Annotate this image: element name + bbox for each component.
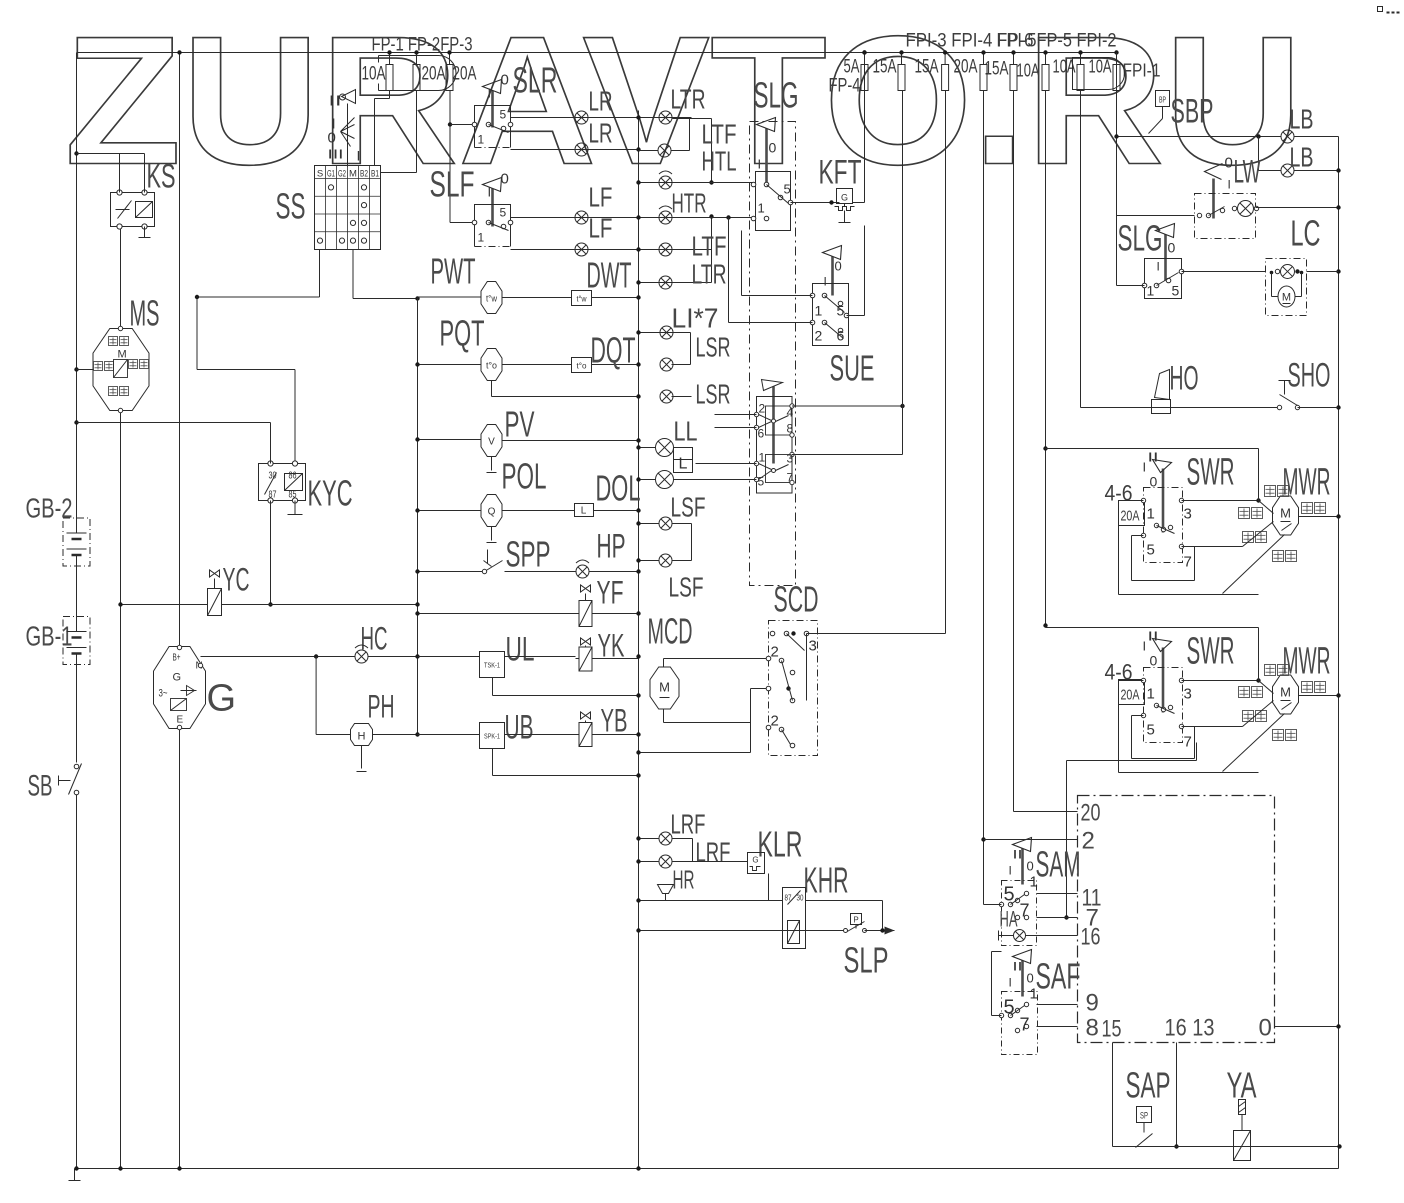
svg-text:SLF: SLF (430, 164, 475, 205)
svg-text:20A: 20A (954, 57, 978, 78)
svg-text:HTR: HTR (672, 188, 707, 219)
svg-text:5: 5 (1147, 542, 1155, 559)
svg-text:5: 5 (1172, 283, 1180, 299)
svg-text:7: 7 (1184, 734, 1192, 751)
svg-text:LW: LW (1234, 154, 1261, 190)
svg-text:Q: Q (488, 507, 496, 518)
svg-text:LB: LB (1290, 104, 1314, 135)
svg-text:1: 1 (1147, 506, 1155, 523)
svg-text:B1: B1 (371, 169, 379, 180)
svg-text:SCD: SCD (774, 579, 819, 620)
svg-text:t°w: t°w (577, 295, 587, 304)
svg-text:KHR: KHR (804, 860, 849, 901)
svg-text:YB: YB (601, 703, 628, 739)
svg-text:5: 5 (500, 108, 507, 122)
svg-text:SHO: SHO (1288, 357, 1331, 395)
svg-text:B2: B2 (360, 169, 368, 180)
svg-text:0: 0 (328, 130, 336, 147)
svg-text:II: II (1013, 848, 1023, 862)
svg-text:2: 2 (1082, 828, 1095, 855)
svg-text:G: G (207, 678, 237, 720)
svg-text:4: 4 (787, 406, 794, 420)
svg-text:II: II (329, 93, 342, 110)
svg-text:SLR: SLR (513, 60, 558, 101)
svg-text:III: III (328, 147, 344, 162)
svg-text:8: 8 (1086, 1015, 1099, 1042)
svg-text:PQT: PQT (440, 313, 485, 354)
svg-text:I: I (1143, 639, 1147, 654)
svg-text:LRF: LRF (671, 809, 706, 840)
svg-text:1: 1 (815, 303, 823, 319)
svg-text:MWR: MWR (1283, 641, 1331, 683)
svg-text:G: G (173, 672, 182, 684)
svg-text:5: 5 (837, 303, 845, 319)
svg-text:BP: BP (1159, 96, 1166, 105)
svg-text:HA: HA (1000, 907, 1018, 932)
svg-text:I: I (1009, 864, 1012, 878)
svg-text:0: 0 (501, 171, 509, 188)
svg-text:V: V (488, 437, 495, 448)
svg-text:5: 5 (500, 206, 507, 220)
svg-text:6: 6 (758, 427, 765, 441)
svg-text:7: 7 (787, 471, 794, 485)
svg-text:20A: 20A (422, 64, 446, 85)
svg-text:SWR: SWR (1187, 452, 1235, 494)
svg-text:L: L (679, 456, 688, 473)
svg-text:I: I (758, 157, 762, 172)
svg-text:8: 8 (787, 422, 794, 436)
svg-text:DQT: DQT (591, 330, 636, 371)
svg-text:M: M (1280, 685, 1291, 700)
svg-text:LSF: LSF (671, 492, 706, 523)
svg-text:I: I (1009, 976, 1012, 990)
svg-text:LTR: LTR (692, 259, 727, 290)
svg-text:2: 2 (771, 644, 779, 661)
svg-text:15A: 15A (915, 57, 939, 78)
svg-text:0: 0 (769, 140, 777, 156)
svg-text:3~: 3~ (159, 688, 168, 700)
svg-text:YC: YC (223, 562, 250, 598)
svg-text:II: II (1013, 960, 1023, 974)
svg-text:II: II (1148, 450, 1159, 465)
svg-text:16 13: 16 13 (1165, 1015, 1215, 1042)
svg-text:0: 0 (1168, 240, 1176, 256)
svg-text:3: 3 (1184, 686, 1192, 703)
svg-text:10A: 10A (1017, 61, 1040, 81)
svg-text:2: 2 (771, 713, 779, 730)
svg-text:LF: LF (589, 182, 613, 213)
svg-text:LR: LR (589, 86, 613, 117)
svg-text:0: 0 (835, 259, 842, 274)
svg-text:0: 0 (1225, 155, 1233, 172)
svg-text:0: 0 (501, 72, 509, 89)
svg-text:DWT: DWT (587, 255, 632, 296)
svg-text:SLP: SLP (844, 940, 889, 981)
svg-text:SS: SS (276, 186, 306, 227)
svg-text:15A: 15A (873, 57, 897, 78)
svg-text:G: G (752, 856, 758, 865)
svg-text:16: 16 (1081, 924, 1101, 951)
svg-text:FPI-1: FPI-1 (1123, 61, 1161, 81)
svg-text:M: M (1280, 506, 1291, 521)
svg-text:M: M (118, 349, 127, 361)
svg-text:LSR: LSR (696, 332, 731, 363)
svg-text:LRF: LRF (696, 837, 731, 868)
svg-text:POL: POL (502, 456, 547, 497)
svg-text:M: M (349, 169, 357, 180)
svg-text:1: 1 (478, 231, 485, 245)
svg-text:0: 0 (1259, 1015, 1272, 1042)
svg-text:2: 2 (759, 402, 766, 416)
svg-text:1: 1 (1147, 283, 1155, 299)
svg-text:LC: LC (1291, 213, 1321, 254)
svg-text:I: I (488, 86, 492, 101)
svg-text:15: 15 (1102, 1016, 1122, 1043)
svg-text:HTL: HTL (702, 146, 737, 177)
svg-text:30: 30 (797, 894, 804, 903)
svg-text:G: G (841, 193, 848, 203)
svg-text:20: 20 (1081, 800, 1101, 827)
svg-text:SLG: SLG (1118, 218, 1163, 259)
svg-text:L: L (581, 506, 587, 517)
svg-text:3: 3 (809, 638, 817, 655)
svg-text:7: 7 (1184, 554, 1192, 571)
svg-text:3: 3 (787, 452, 794, 466)
svg-text:M: M (1282, 292, 1291, 304)
svg-text:UB: UB (505, 709, 534, 747)
svg-text:LSR: LSR (696, 379, 731, 410)
svg-text:PH: PH (368, 689, 395, 725)
svg-text:KS: KS (147, 158, 176, 196)
svg-text:0: 0 (1150, 653, 1158, 669)
svg-text:LF: LF (589, 213, 613, 244)
svg-text:I: I (357, 148, 361, 164)
svg-text:SLG: SLG (754, 75, 799, 116)
svg-text:FP-5 FPI-2: FP-5 FPI-2 (1037, 31, 1117, 52)
svg-text:FP-4: FP-4 (829, 76, 861, 97)
svg-text:t°w: t°w (486, 294, 497, 304)
svg-text:LSF: LSF (669, 572, 704, 603)
svg-text:6: 6 (837, 328, 845, 344)
svg-text:SAF: SAF (1036, 956, 1081, 997)
svg-text:KYC: KYC (308, 473, 353, 514)
svg-text:SB: SB (28, 770, 53, 803)
svg-text:KFT: KFT (819, 154, 862, 192)
svg-text:SPK-1: SPK-1 (484, 732, 500, 741)
svg-text:SUE: SUE (830, 348, 875, 389)
svg-text:5: 5 (1147, 722, 1155, 739)
svg-text:LI*7: LI*7 (672, 303, 719, 334)
svg-text:3: 3 (1184, 506, 1192, 523)
svg-text:LTF: LTF (692, 231, 727, 262)
svg-text:I: I (1143, 460, 1147, 475)
svg-text:2: 2 (815, 328, 823, 344)
svg-text:1: 1 (478, 133, 485, 147)
svg-text:SWR: SWR (1187, 631, 1235, 673)
svg-text:1: 1 (1147, 686, 1155, 703)
svg-text:0: 0 (1027, 859, 1034, 874)
svg-text:LR: LR (589, 118, 613, 149)
svg-text:E: E (177, 715, 184, 726)
svg-text:HO: HO (1170, 360, 1199, 398)
svg-text:II: II (1148, 629, 1159, 644)
svg-text:HP: HP (597, 528, 626, 566)
svg-text:I: I (1228, 178, 1231, 192)
svg-text:SAM: SAM (1036, 844, 1081, 885)
svg-text:20A: 20A (1121, 508, 1140, 525)
svg-text:G1: G1 (327, 169, 335, 180)
svg-text:HR: HR (673, 865, 695, 895)
svg-text:LL: LL (674, 416, 698, 447)
svg-text:I: I (488, 185, 492, 200)
svg-text:5: 5 (758, 475, 765, 489)
svg-text:YF: YF (597, 575, 624, 611)
svg-text:S: S (317, 169, 323, 180)
svg-text:PV: PV (505, 404, 535, 445)
svg-text:I: I (824, 275, 827, 289)
svg-text:M: M (659, 680, 670, 695)
svg-text:1: 1 (759, 451, 766, 465)
svg-text:FPI-5: FPI-5 (997, 31, 1037, 52)
svg-text:5: 5 (784, 182, 791, 197)
svg-text:SPP: SPP (506, 534, 551, 575)
svg-text:0: 0 (1027, 971, 1034, 986)
svg-text:MWR: MWR (1283, 462, 1331, 504)
svg-text:H: H (358, 731, 366, 743)
svg-text:FP-1 FP-2FP-3: FP-1 FP-2FP-3 (372, 35, 473, 56)
svg-text:LTR: LTR (671, 84, 706, 115)
svg-text:10A: 10A (362, 64, 386, 85)
svg-text:LB: LB (1290, 142, 1314, 173)
svg-text:20A: 20A (1121, 687, 1140, 704)
svg-text:9: 9 (1086, 990, 1099, 1017)
svg-text:SBP: SBP (1171, 93, 1214, 131)
svg-text:t°o: t°o (486, 361, 497, 371)
svg-text:G2: G2 (338, 169, 346, 180)
svg-text:UL: UL (506, 631, 535, 669)
svg-text:MCD: MCD (648, 611, 693, 652)
svg-text:SAP: SAP (1126, 1065, 1171, 1106)
svg-text:DOL: DOL (596, 468, 641, 509)
svg-text:GB-2: GB-2 (26, 493, 73, 524)
svg-text:PWT: PWT (431, 251, 476, 292)
svg-text:GB-1: GB-1 (26, 621, 73, 652)
svg-text:1: 1 (1030, 986, 1038, 1003)
svg-text:I: I (1157, 260, 1160, 274)
svg-text:15A: 15A (985, 59, 1009, 80)
svg-text:MS: MS (130, 293, 160, 334)
svg-text:10A: 10A (1089, 57, 1112, 77)
svg-text:B+: B+ (173, 653, 181, 664)
svg-text:SP: SP (1140, 1111, 1148, 1121)
svg-text:t°o: t°o (577, 362, 588, 371)
svg-text:TSK-1: TSK-1 (484, 661, 500, 670)
svg-text:P: P (853, 916, 858, 925)
svg-text:1: 1 (758, 201, 765, 216)
svg-text:5A: 5A (844, 57, 860, 78)
